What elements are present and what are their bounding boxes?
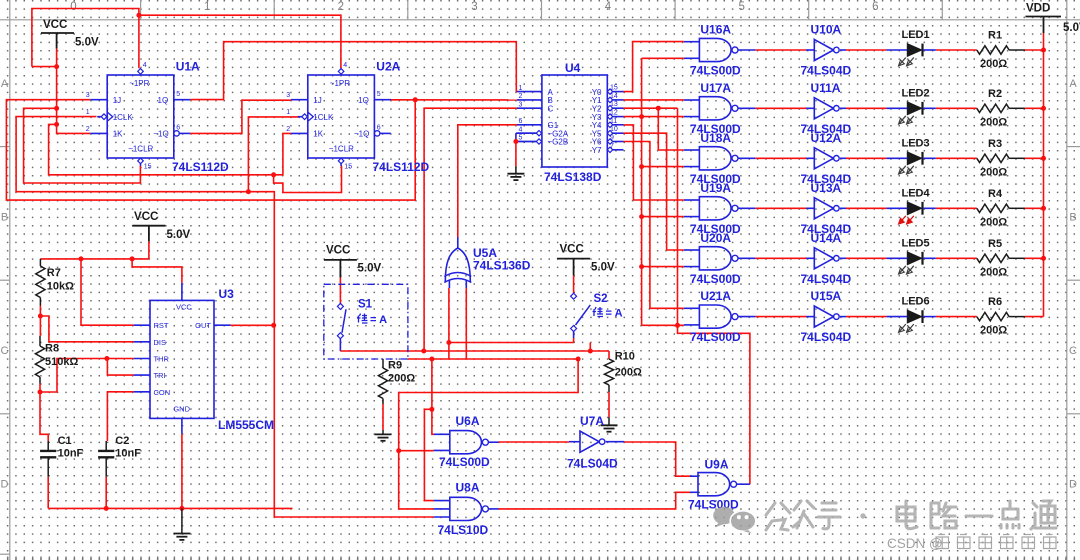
LED5 pin stubs [886,257,907,259]
LED4 [907,202,921,215]
svg-text:2: 2 [286,126,290,133]
svg-text:5: 5 [738,1,744,13]
wire ladder to U20A lower [642,266,684,268]
svg-text:DIS: DIS [154,338,167,347]
wire Y0 to U16A [624,42,684,92]
svg-text:2: 2 [86,126,90,133]
svg-text:A: A [1069,78,1077,90]
wire channel 4 gate to inverter [755,207,806,209]
capacitor C2 [98,450,114,452]
svg-text:1Q: 1Q [158,96,169,105]
wire channel 6 inverter to LED6 [846,316,886,318]
svg-text:U6A: U6A [456,414,480,428]
svg-text:1J: 1J [113,96,121,105]
svg-text:1: 1 [86,109,90,116]
wire S2 to XOR left input [573,332,575,339]
wire R1 to VDD rail [1025,49,1044,51]
wire VCC4 to S2 [573,275,575,293]
wire R4 to VDD rail [1025,207,1044,209]
svg-text:5.0V: 5.0V [1063,22,1080,34]
svg-text:R6: R6 [988,296,1002,308]
wire channel 2 inverter to LED2 [846,107,886,109]
svg-text:200Ω: 200Ω [980,325,1007,337]
svg-text:200Ω: 200Ω [980,216,1007,228]
svg-text:A: A [1,78,9,90]
svg-text:Y7: Y7 [592,146,602,155]
resistor R7 [36,266,45,298]
svg-text:LED4: LED4 [902,187,931,199]
svg-text:LED3: LED3 [902,137,930,149]
svg-text:74LS04D: 74LS04D [801,272,852,286]
decoder U4 74LS138D [542,75,607,167]
svg-text:74LS00D: 74LS00D [690,330,741,344]
svg-text:VCC: VCC [176,303,192,312]
svg-text:74LS136D: 74LS136D [473,259,531,273]
nand gate U21A 74LS00D [699,305,731,328]
svg-text:5.0V: 5.0V [167,229,191,241]
wire channel 4 LED4 to R4 [936,207,977,209]
svg-text:6: 6 [872,1,878,13]
LED5 [907,252,921,265]
LED1 pin stubs [886,49,907,51]
svg-text:VCC: VCC [326,245,350,257]
svg-text:U4: U4 [565,61,581,75]
right ruler letters [1067,146,1080,148]
svg-text:1: 1 [519,85,523,92]
wire 1CLK U2A riser [248,117,298,192]
wire XOR output to G1 [458,125,517,237]
wire channel 2 gate to inverter [755,107,806,109]
svg-text:U11A: U11A [811,81,841,95]
wire S1 bottom row 351 [339,339,341,352]
svg-text:74LS10D: 74LS10D [438,523,489,537]
svg-text:6: 6 [176,125,180,132]
LED1 [907,44,921,57]
svg-text:4: 4 [343,62,347,69]
wire C input riser [424,108,517,351]
svg-text:U19A: U19A [700,181,731,195]
svg-text:3: 3 [471,1,477,13]
LED3 pin stubs [886,157,907,159]
svg-text:~1Q: ~1Q [153,130,168,139]
svg-text:R3: R3 [988,138,1002,150]
svg-text:~1PR: ~1PR [330,79,350,88]
svg-text:5.0V: 5.0V [75,37,99,49]
LED4 pin stubs [886,207,907,209]
svg-text:U1A: U1A [176,60,200,74]
wire ~G2A ~G2B tie [516,132,536,134]
capacitor C1 [40,445,56,447]
svg-text:7: 7 [610,143,614,150]
svg-text:D: D [1069,479,1077,491]
svg-text:74LS138D: 74LS138D [544,170,602,184]
wire channel 6 LED6 to R6 [936,316,977,318]
svg-text:5: 5 [176,91,180,98]
svg-text:74LS112D: 74LS112D [373,160,430,174]
svg-text:10: 10 [610,126,618,133]
resistor R4 [977,204,1009,212]
svg-text:U10A: U10A [811,23,842,37]
svg-text:14: 14 [610,93,618,100]
svg-text:C1: C1 [58,435,72,447]
nand gate U8A 74LS10D [450,497,482,520]
svg-text:74LS00D: 74LS00D [690,64,741,78]
svg-text:~1CLR: ~1CLR [329,145,354,154]
wire Y6 to U21A upper [624,142,684,309]
svg-text:U12A: U12A [811,131,842,145]
wire VCC3 to S1 [339,278,341,304]
wire R2 to VDD rail [1025,107,1044,109]
svg-text:R10: R10 [615,351,635,363]
svg-text:U21A: U21A [700,289,731,303]
ground for 555 [181,508,183,533]
watermark wechat icon [713,507,756,534]
power symbol VCC4 [573,259,575,276]
wire CON to C2 top [107,392,133,441]
wire staircase to ~1CLR U2A [274,166,342,193]
wire TRI to THR [107,359,133,376]
wire ladder top to U16A lower [642,57,684,59]
wire 555 OUT down to U8A input [274,325,433,517]
wire ladder bottom to U21A lower [642,324,684,326]
wire ~1Q U1A to 1J U2A [190,100,291,133]
xor gate U5A 74LS136D [445,248,470,282]
wire Y5 to U20A upper [624,133,684,250]
wire R6 to VDD rail [1025,316,1044,318]
svg-text:4: 4 [605,1,612,13]
ground for R9 [375,433,392,435]
svg-text:74LS112D: 74LS112D [172,160,229,174]
inverter U7A 74LS04D [580,431,599,452]
nand gate U18A 74LS00D [699,147,731,170]
svg-text:OUT: OUT [195,321,211,330]
svg-text:1Q: 1Q [358,96,369,105]
wire channel 5 inverter to LED5 [846,257,886,259]
svg-text:6: 6 [377,125,381,132]
svg-text:C: C [1069,345,1077,357]
wire ladder to U19A lower [642,216,684,218]
svg-text:3: 3 [86,92,90,99]
resistor R5 [977,254,1009,262]
wire VCC2 to RST [81,259,134,325]
wire R8 bottom to C1 top [39,384,41,393]
wire channel 1 gate to inverter [755,49,806,51]
svg-text:2: 2 [338,1,344,13]
svg-text:0: 0 [70,1,76,13]
svg-text:VCC: VCC [43,19,67,31]
wire channel 5 LED5 to R5 [936,257,977,259]
svg-text:LED6: LED6 [902,296,930,308]
LED3 [907,152,921,165]
svg-text:~G2B: ~G2B [548,138,569,147]
wire channel 5 gate to inverter [755,257,806,259]
resistor R6 [977,312,1009,320]
wire C1 C2 GND bottom bus [47,477,49,509]
svg-text:~1PR: ~1PR [129,79,149,88]
svg-text:200Ω: 200Ω [980,266,1007,278]
svg-text:GND: GND [173,405,190,414]
svg-text:5.0V: 5.0V [358,263,382,275]
svg-text:U7A: U7A [580,414,604,428]
svg-text:1K: 1K [113,130,123,139]
svg-text:5.0V: 5.0V [591,262,615,274]
svg-text:1: 1 [286,109,290,116]
svg-text:THR: THR [154,355,170,364]
svg-text:10nF: 10nF [58,448,84,460]
nand gate U9A 74LS00D [698,473,730,496]
svg-text:200Ω: 200Ω [388,373,415,385]
svg-text:15: 15 [610,85,618,92]
wire S2 branch to row 351 [589,343,591,352]
svg-text:5: 5 [519,135,523,142]
switch S2 [571,293,577,299]
svg-text:74LS04D: 74LS04D [801,64,852,78]
wire VCC to ~1PR bus top [32,9,139,69]
wire R3 to VDD rail [1025,157,1044,159]
wire VCC stem to rail [56,49,58,67]
wire 1K U2A feed [274,133,291,174]
wire 1CLK U1A clock loop [16,117,274,326]
wire Y2 branch to U18A upper [658,108,684,150]
wire Y4 to U19A upper [624,125,684,200]
nand gate U16A 74LS00D [699,38,731,61]
switch S1 [324,284,408,359]
svg-text:200Ω: 200Ω [980,58,1007,70]
svg-text:B: B [1069,212,1076,224]
wire channel 3 inverter to LED3 [846,157,886,159]
svg-text:TRI: TRI [154,371,166,380]
wire 555 GND pin [181,434,183,509]
power symbol VDD [1043,17,1045,34]
wire channel 1 inverter to LED1 [846,49,886,51]
wire VCC2 row to R7 [40,258,148,260]
resistor R2 [977,104,1009,112]
svg-text:LED2: LED2 [902,87,930,99]
svg-text:U16A: U16A [700,23,731,37]
wire VCC vertical to 1K U1A [57,67,91,134]
svg-text:LED5: LED5 [902,237,930,249]
resistor R1 [977,46,1009,54]
wire channel 3 LED3 to R3 [936,157,977,159]
svg-text:9: 9 [610,135,614,142]
wire VCC loop row 174.8 [49,124,274,174]
svg-text:C: C [548,104,554,113]
svg-text:200Ω: 200Ω [980,116,1007,128]
svg-text:12: 12 [610,110,618,117]
svg-text:510kΩ: 510kΩ [45,356,78,368]
LED6 [907,310,921,323]
svg-text:VCC: VCC [134,211,158,223]
svg-text:5: 5 [377,91,381,98]
svg-text:S1: S1 [358,299,373,311]
svg-text:LM555CM: LM555CM [218,418,274,432]
svg-text:R4: R4 [988,188,1003,200]
wire channel 3 gate to inverter [755,157,806,159]
svg-text:U2A: U2A [376,60,400,74]
left ruler letters [0,146,10,148]
svg-text:U18A: U18A [700,131,731,145]
svg-text:74LS04D: 74LS04D [567,457,618,471]
svg-text:1CLK: 1CLK [113,113,134,122]
svg-text:C2: C2 [115,435,129,447]
wire THR to R8 bottom [40,359,134,393]
svg-text:R7: R7 [47,267,61,279]
wire row 359 S-net [408,358,578,360]
wire Y2 row [624,107,678,109]
svg-text:B: B [1,212,8,224]
wire R5 to VDD rail [1025,257,1044,259]
svg-text:U17A: U17A [700,81,731,95]
wire Y3 to ladder [624,116,642,118]
svg-text:74LS04D: 74LS04D [801,330,852,344]
svg-text:RST: RST [154,321,169,330]
inverter U10A 74LS04D [814,39,833,60]
wire channel 1 LED1 to R1 [936,49,977,51]
bottom edge tick row [7,557,9,560]
flip-flop U1A 74LS112D [107,75,174,158]
wire VCC2 to 555 VCC pin [132,259,182,283]
svg-text:15: 15 [344,164,352,171]
timer U3 LM555CM [150,300,214,418]
inverter U12A 74LS04D [814,148,833,169]
LED6 pin stubs [886,316,907,318]
wire U9A output feedback [678,325,750,484]
svg-text:U3: U3 [219,287,235,301]
resistor R3 [977,154,1009,162]
power symbol VCC3 [339,260,341,278]
VDD rail [1043,33,1045,317]
svg-text:10kΩ: 10kΩ [47,281,74,293]
svg-text:CON: CON [154,388,171,397]
svg-text:74LS00D: 74LS00D [439,455,490,469]
svg-text:R9: R9 [388,360,402,372]
svg-text:200Ω: 200Ω [615,367,642,379]
LED2 pin stubs [886,107,907,109]
svg-text:3: 3 [519,101,523,108]
svg-text:4: 4 [519,126,523,133]
wire channel 4 inverter to LED4 [846,207,886,209]
svg-text:LED1: LED1 [902,29,930,41]
inverter U15A 74LS04D [814,306,833,327]
svg-text:1J: 1J [313,96,321,105]
svg-text:CSDN @: CSDN @ [887,536,943,551]
wire row359 right branch to U6A lower / U8A middle [399,359,578,509]
wire U8A out to U9A lower [499,492,690,509]
svg-text:R2: R2 [988,88,1002,100]
wire 555 OUT stub [231,324,275,326]
flip-flop U2A 74LS112D [308,75,375,158]
svg-text:= A: = A [606,308,623,320]
wire U7A out to U9A upper [624,442,690,476]
wire R7 bottom to DIS [39,306,41,336]
top ruler ticks and numbers [140,0,142,20]
ground for U4 enables [515,166,517,174]
svg-text:1K: 1K [313,130,323,139]
svg-text:2: 2 [519,93,523,100]
svg-text:C: C [1,345,9,357]
svg-text:S2: S2 [594,293,608,305]
wire 1J U1A feedback loop [6,100,415,200]
svg-text:~1Q: ~1Q [354,130,369,139]
wire ladder to U18A lower [642,166,684,168]
sheet border frame [0,19,1080,21]
nand gate U20A 74LS00D [699,247,731,270]
svg-text:U15A: U15A [811,289,842,303]
wire 1Q U1A to A input U4 [190,42,517,100]
svg-text:U14A: U14A [811,231,842,245]
power symbol VCC1 [56,33,58,49]
wire U6A out to U7A [499,441,569,443]
wire Y2 long vertical to ch6 [677,108,679,325]
svg-text:200Ω: 200Ω [980,166,1007,178]
inverter U11A 74LS04D [814,98,833,119]
svg-text:13: 13 [610,101,618,108]
nand gate U19A 74LS00D [699,197,731,220]
junction dots [136,13,141,18]
wire ~1PR U2A feed [139,15,341,68]
wire Y1 to U17A [624,99,684,101]
svg-text:10nF: 10nF [115,448,141,460]
resistor R9 [378,368,387,399]
nand gate U17A 74LS00D [699,97,731,120]
watermark text big [766,501,1056,530]
resistor R8 [35,346,44,377]
svg-text:~1CLR: ~1CLR [128,145,153,154]
svg-text:11: 11 [610,118,617,125]
ground for R10 [601,424,618,426]
svg-text:U13A: U13A [811,181,842,195]
svg-text:VCC: VCC [560,244,584,256]
wire R10 top lead [608,351,610,359]
svg-text:U9A: U9A [705,458,729,472]
nand gate U6A 74LS00D [450,431,482,454]
power symbol VCC2 [148,226,150,242]
svg-text:= A: = A [370,314,387,326]
svg-text:R5: R5 [988,238,1002,250]
svg-text:D: D [1,479,9,491]
svg-text:1CLK: 1CLK [313,113,334,122]
svg-text:U20A: U20A [700,231,731,245]
svg-text:R8: R8 [45,343,59,355]
inverter U13A 74LS04D [814,198,833,219]
svg-text:6: 6 [519,118,523,125]
wire channel 2 LED2 to R2 [936,107,977,109]
resistor R10 [604,359,613,385]
svg-text:R1: R1 [988,30,1002,42]
wire channel 6 gate to inverter [755,316,806,318]
wire row359 to U6A upper and U8A upper [432,359,434,434]
svg-text:3: 3 [286,92,290,99]
wire VCC loop to ~1CLR U1A [24,108,141,183]
svg-text:74LS00D: 74LS00D [690,272,741,286]
wire Y3 ladder vertical [641,58,643,325]
LED2 [907,102,921,115]
svg-text:VDD: VDD [1026,3,1050,15]
svg-text:15: 15 [144,164,152,171]
wire 1Q U2A to B input U4 [390,99,517,101]
wire XOR left input vertical [448,288,450,359]
svg-text:U8A: U8A [456,481,480,495]
svg-text:4: 4 [143,62,147,69]
wire XOR right input vertical [465,288,467,359]
svg-text:1: 1 [204,1,210,13]
inverter U14A 74LS04D [814,248,833,269]
